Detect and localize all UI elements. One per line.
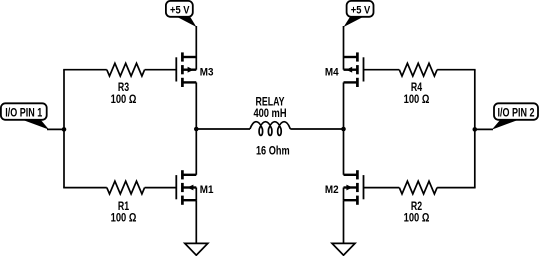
wire M4 drain to node C (343, 82, 345, 129)
svg-text:+5 V: +5 V (351, 5, 371, 17)
wire R4 to node D (437, 69, 476, 71)
wire M4 gate to R4 (364, 69, 400, 71)
node A junction (194, 127, 199, 132)
wire +5V flag to M4 source (343, 26, 345, 57)
svg-text:I/O PIN 2: I/O PIN 2 (498, 107, 535, 120)
resistor R1 (107, 181, 145, 194)
svg-text:400 mH: 400 mH (253, 106, 286, 120)
svg-text:M1: M1 (200, 184, 214, 196)
wire I/O PIN 1 to node B (47, 128, 64, 130)
port flag I/O PIN 2 (492, 103, 538, 129)
resistor R2 (399, 181, 437, 194)
power +5V supply flag (left) (166, 1, 197, 27)
svg-text:100 Ω: 100 Ω (404, 92, 430, 106)
port flag I/O PIN 1 (1, 103, 49, 129)
power +5V supply flag (right) (344, 1, 374, 27)
inductor RELAY coil (250, 122, 290, 136)
svg-text:16 Ohm: 16 Ohm (256, 143, 290, 157)
ground (right) (332, 243, 355, 255)
wire gate bus left (node B vertical) (63, 70, 65, 188)
transistor M3 (PMOS) (176, 52, 196, 87)
resistor R3 (107, 63, 145, 76)
svg-text:100 Ω: 100 Ω (111, 210, 137, 224)
wire M2 source to ground (343, 200, 345, 243)
wire M2 gate to R2 (364, 187, 400, 189)
svg-text:I/O PIN 1: I/O PIN 1 (5, 107, 42, 120)
wire node A to M1 drain (195, 129, 197, 175)
svg-text:M3: M3 (200, 66, 214, 78)
wire R2 to node D (437, 187, 476, 189)
svg-text:100 Ω: 100 Ω (404, 210, 430, 224)
svg-text:M2: M2 (325, 184, 339, 196)
node D junction (473, 127, 478, 132)
wire M1 source to ground (195, 200, 197, 243)
wire node A to relay (196, 128, 250, 130)
ground (left) (185, 243, 208, 255)
resistor R4 (399, 63, 437, 76)
wire R3 to M3 gate (145, 69, 177, 71)
node B junction (62, 127, 67, 132)
transistor M1 (NMOS) (176, 170, 196, 205)
wire +5V flag to M3 source (195, 26, 197, 57)
wire M3 drain to node A (195, 82, 197, 129)
wire R1 to M1 gate (145, 187, 177, 189)
node C junction (341, 127, 346, 132)
wire I/O PIN 2 to node D (475, 128, 493, 130)
transistor M2 (NMOS) (344, 170, 364, 205)
wire node B to R1 (63, 187, 107, 189)
wire gate bus right (node D vertical) (474, 70, 476, 188)
svg-text:100 Ω: 100 Ω (111, 92, 137, 106)
wire node C to M2 drain (343, 129, 345, 175)
wire relay to node C (290, 128, 343, 130)
transistor M4 (PMOS) (344, 52, 364, 87)
svg-text:+5 V: +5 V (170, 5, 190, 17)
svg-text:M4: M4 (325, 66, 339, 78)
wire node B to R3 (63, 69, 107, 71)
